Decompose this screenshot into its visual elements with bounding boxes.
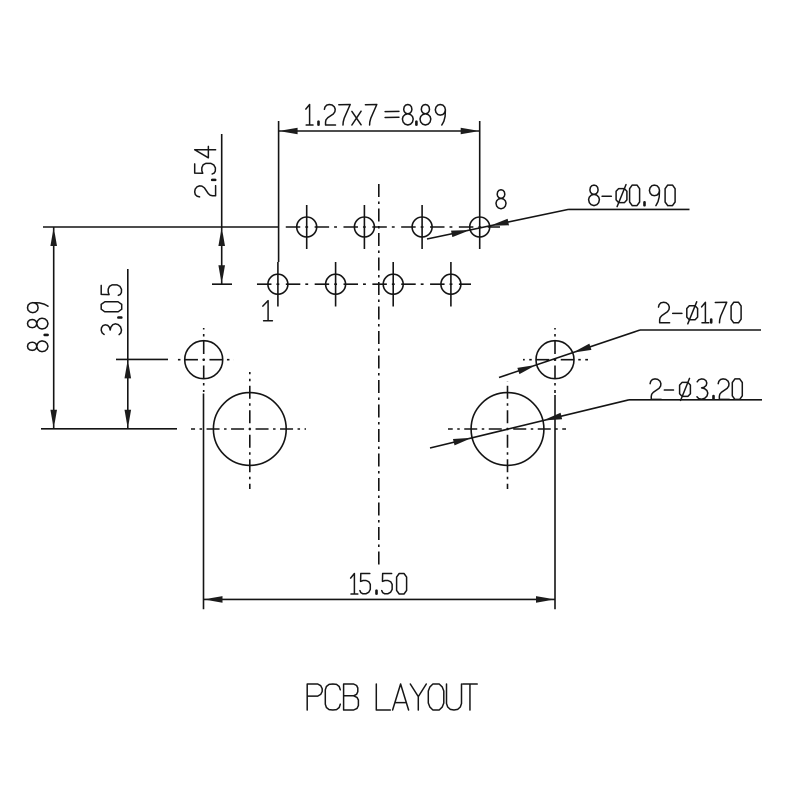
- label 2.54 (vertical): [195, 146, 216, 197]
- pin hole 8: [470, 205, 490, 250]
- dimension 8.89 line: [53, 227, 55, 429]
- arrow dim 3.05 down: [125, 410, 132, 429]
- dimension 15.50 line: [204, 598, 556, 600]
- dimension 15.50 extension left: [203, 394, 205, 610]
- arrow leader 8-0.90 upper: [490, 219, 509, 226]
- leader 2-1.70 diagonal: [499, 330, 640, 378]
- pin number 8: [496, 190, 506, 209]
- arrow leader 2-1.70 lower: [517, 365, 536, 374]
- label 15.50: [351, 574, 407, 595]
- mounting hole right 1.70: [523, 328, 588, 393]
- arrow leader 2-1.70 upper: [572, 344, 591, 353]
- arrow dim top left: [279, 128, 298, 135]
- pin number 1: [263, 301, 273, 321]
- arrow dim top right: [461, 128, 480, 135]
- leader 8-0.90 underline: [569, 208, 690, 210]
- arrow dim 15.50 left: [204, 596, 223, 603]
- dimension 15.50 extension right: [554, 395, 556, 609]
- label 1.27x7=8.89: [306, 105, 446, 126]
- label 2-dia-1.70: [659, 302, 742, 324]
- arrow leader 8-0.90 lower: [451, 230, 470, 237]
- arrow dim 2.54 down: [218, 265, 225, 284]
- leader 8-0.90 diagonal: [427, 209, 569, 239]
- row 2 centerline (pins 1,3,5,7): [253, 283, 471, 285]
- label 8-dia-0.90: [589, 185, 676, 207]
- label 2-dia-3.20: [650, 378, 742, 400]
- pin hole 4: [354, 205, 374, 249]
- pin hole 6: [412, 205, 432, 249]
- leader 2-3.20 underline: [629, 399, 762, 401]
- arrow dim 2.54 up: [218, 227, 225, 246]
- dimension 2.54 line: [221, 134, 223, 284]
- arrow dim 8.89 down: [50, 410, 57, 429]
- label 3.05 (vertical): [101, 285, 122, 335]
- arrow leader 2-3.20 upper: [543, 413, 562, 421]
- dimension 3.05 line: [127, 269, 129, 429]
- dimension 8.89 extension bottom: [41, 428, 177, 430]
- arrow leader 2-3.20 lower: [453, 438, 472, 446]
- arrow dim 8.89 up: [50, 227, 57, 246]
- dimension 8.89 extension top: [43, 226, 279, 228]
- leader 2-1.70 underline: [640, 329, 761, 331]
- row 1 centerline (pins 2,4,6,8): [281, 226, 500, 228]
- dimension 2.54 tick: [212, 283, 232, 285]
- pin hole 5: [383, 262, 403, 307]
- arrow dim 15.50 right: [536, 596, 555, 603]
- title PCB LAYOUT: [307, 684, 477, 710]
- mounting hole left 1.70: [174, 328, 234, 392]
- dimension 1.27x7=8.89 extension line right: [479, 121, 481, 205]
- arrow dim 3.05 up: [125, 359, 132, 378]
- pin hole 2: [297, 205, 317, 249]
- leader 2-3.20 diagonal: [430, 400, 629, 448]
- pin hole 3: [326, 262, 346, 307]
- dimension 1.27x7=8.89 extension line left: [278, 121, 280, 262]
- post hole right 3.20: [448, 381, 566, 489]
- dimension 1.27x7=8.89 line: [279, 130, 480, 132]
- post hole left 3.20: [191, 372, 306, 489]
- label 8.89 (vertical): [28, 303, 49, 352]
- dimension 3.05 tick: [116, 358, 168, 360]
- pin hole 7: [441, 262, 461, 307]
- pin hole 1: [268, 262, 288, 307]
- vertical centerline: [378, 184, 380, 565]
